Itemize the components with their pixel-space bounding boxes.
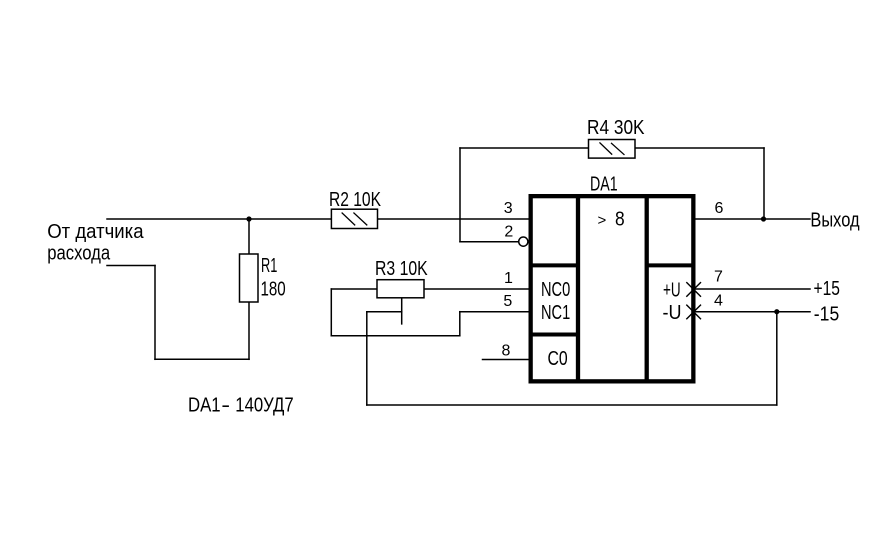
svg-text:3: 3: [504, 200, 513, 217]
svg-text:расхода: расхода: [47, 241, 111, 264]
svg-text:>: >: [598, 212, 607, 229]
svg-text:+U: +U: [663, 279, 681, 301]
svg-text:R3 10K: R3 10K: [375, 257, 428, 279]
svg-text:6: 6: [714, 200, 723, 217]
svg-text:140УД7: 140УД7: [235, 393, 293, 416]
svg-text:Выход: Выход: [810, 208, 859, 231]
svg-text:8: 8: [615, 207, 625, 229]
svg-text:C0: C0: [548, 347, 568, 369]
svg-text:8: 8: [502, 343, 511, 360]
svg-text:NC0: NC0: [541, 278, 570, 301]
svg-text:DA1: DA1: [188, 393, 221, 416]
svg-text:DA1: DA1: [590, 172, 618, 195]
svg-text:-15: -15: [814, 302, 839, 324]
svg-text:R1: R1: [261, 254, 277, 277]
svg-text:1: 1: [504, 270, 513, 287]
svg-text:7: 7: [714, 269, 723, 286]
svg-text:2: 2: [504, 224, 513, 241]
svg-text:-: -: [221, 394, 230, 416]
svg-text:R4 30K: R4 30K: [587, 116, 645, 138]
svg-text:От датчика: От датчика: [47, 221, 144, 243]
svg-text:5: 5: [503, 293, 512, 310]
svg-text:R2 10K: R2 10K: [329, 188, 381, 210]
svg-text:180: 180: [261, 278, 286, 301]
svg-text:-U: -U: [663, 302, 682, 324]
svg-text:4: 4: [714, 293, 723, 310]
svg-text:NC1: NC1: [541, 301, 570, 324]
svg-text:+15: +15: [814, 277, 840, 299]
